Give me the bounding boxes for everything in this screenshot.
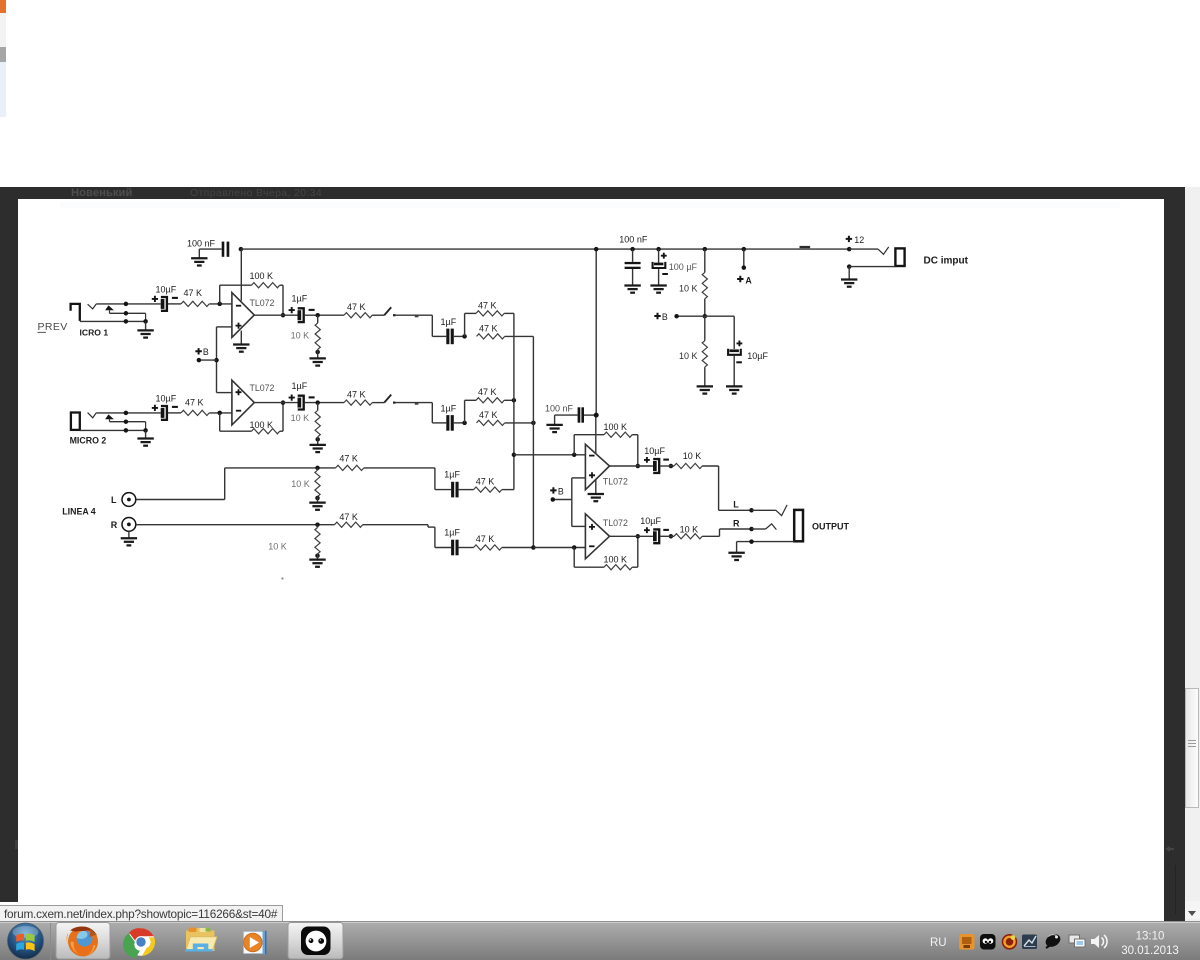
svg-text:1µF: 1µF xyxy=(292,294,308,304)
svg-text:100 K: 100 K xyxy=(604,422,628,432)
label node +B output xyxy=(550,487,556,493)
ground C12 xyxy=(726,386,742,393)
wire C2 to R9 xyxy=(168,412,181,414)
wire U1 feedback up xyxy=(219,285,221,304)
svg-text:12: 12 xyxy=(854,235,864,245)
connector J2 MICRO 2 jack body xyxy=(71,413,80,430)
ground U3 xyxy=(588,494,604,501)
wire C3 to R3 R5 xyxy=(305,314,344,316)
wire bus B right mix xyxy=(532,336,534,547)
switch SW1 ch1 xyxy=(384,307,391,315)
svg-text:A: A xyxy=(745,275,752,285)
wire +B to C12 xyxy=(705,315,734,317)
node C14 out xyxy=(669,534,674,539)
wire R20 to bus B xyxy=(502,547,534,549)
op-amp U3 TL072 xyxy=(585,444,609,489)
ground C9 xyxy=(546,425,562,432)
label node +A xyxy=(737,276,743,282)
node rail 100uF tap xyxy=(656,247,661,252)
svg-text:47 K: 47 K xyxy=(185,397,204,407)
wire bus A to U3 inverting xyxy=(514,454,586,456)
svg-text:47 K: 47 K xyxy=(478,300,497,310)
node bus A ch2 xyxy=(512,398,517,403)
svg-text:47 K: 47 K xyxy=(476,534,495,544)
wire J2 tip contact tick xyxy=(88,413,97,418)
svg-text:10 K: 10 K xyxy=(679,284,698,294)
wire +A stub xyxy=(743,249,745,268)
node C4 out xyxy=(315,400,320,405)
label node +12 xyxy=(846,236,852,242)
wire R8 to bus B xyxy=(505,335,534,337)
wire U3 output to C13 xyxy=(610,465,653,467)
wire ch2 top branch xyxy=(464,400,466,423)
svg-text:10 K: 10 K xyxy=(680,524,699,534)
ground C10 xyxy=(624,286,640,293)
op-amp U1 TL072 xyxy=(232,293,254,338)
svg-text:L: L xyxy=(733,500,739,510)
node L output xyxy=(749,508,754,513)
svg-text:100 nF: 100 nF xyxy=(545,404,574,414)
svg-text:100 nF: 100 nF xyxy=(187,238,216,248)
wire J2 ground stem xyxy=(145,430,147,438)
ground U1 xyxy=(233,345,249,352)
wire C8 to R20 xyxy=(459,547,474,549)
connector J3 RCA L xyxy=(122,493,136,507)
wire V+ power rail xyxy=(241,248,849,250)
svg-text:100 µF: 100 µF xyxy=(669,262,698,272)
wire rail to DC jack tick xyxy=(849,248,878,250)
node U2 output xyxy=(281,400,286,405)
wire +B stub supply xyxy=(677,315,705,317)
wire R13 to bus A xyxy=(504,399,514,401)
svg-text:10µF: 10µF xyxy=(156,284,177,294)
ground R11 xyxy=(310,445,326,452)
node U1 inverting input xyxy=(217,302,222,307)
svg-text:10µF: 10µF xyxy=(747,351,768,361)
wire V+ drop to mixer xyxy=(595,249,597,415)
svg-text:47 K: 47 K xyxy=(347,302,366,312)
wire U3 non-inverting xyxy=(572,477,586,479)
wire R3 ground stem xyxy=(317,349,319,357)
wire J1 sleeve xyxy=(80,320,146,322)
ground R15 xyxy=(309,503,325,510)
wire L to jack tick xyxy=(752,509,776,511)
capacitor C11 100uF rail xyxy=(658,249,660,263)
wire +B stub output xyxy=(553,499,572,501)
node U2 inverting input xyxy=(217,411,222,416)
wire J1 tip to C1 xyxy=(96,303,161,305)
wire R12 to switch SW2 xyxy=(372,402,384,404)
wire SW1 to C5 xyxy=(395,314,433,316)
wire DC jack tip tick xyxy=(878,247,889,254)
wire output jack R tick xyxy=(766,524,777,530)
switch arrow J1 xyxy=(105,305,114,310)
wire U3 V- stem xyxy=(595,480,597,494)
node J2 ring xyxy=(124,419,128,424)
svg-text:1µF: 1µF xyxy=(444,469,460,479)
node C3 out xyxy=(315,313,320,318)
wire R26 to R node xyxy=(702,535,719,537)
node J2 tip xyxy=(124,411,128,416)
svg-text:47 K: 47 K xyxy=(339,512,358,522)
svg-text:TL072: TL072 xyxy=(603,518,628,528)
node ch1 mix xyxy=(462,334,467,339)
node +B dot xyxy=(197,358,202,363)
wire R input run xyxy=(136,524,335,526)
wire J1 tip contact tick xyxy=(88,304,97,309)
wire R to jack tick xyxy=(752,528,766,530)
svg-text:100 nF: 100 nF xyxy=(619,235,648,245)
svg-text:100 K: 100 K xyxy=(250,271,274,281)
svg-text:10 K: 10 K xyxy=(268,542,287,552)
wire feedback to U1 output xyxy=(280,284,283,286)
wire C7 to R19 xyxy=(459,489,474,491)
wire C14 to R26 xyxy=(660,535,674,537)
node +B dot supply xyxy=(674,314,679,319)
label node +B channels xyxy=(195,348,201,354)
node R 10K tap xyxy=(315,522,320,527)
wire ch1 top branch xyxy=(464,313,466,336)
svg-text:DC imput: DC imput xyxy=(924,255,969,266)
node R11 bottom xyxy=(315,437,320,442)
svg-text:10 K: 10 K xyxy=(683,451,702,461)
wire R19 to bus A xyxy=(502,489,514,491)
svg-text:47 K: 47 K xyxy=(476,476,495,486)
wire output jack L tick xyxy=(776,505,787,516)
node J2 sleeve xyxy=(124,428,128,433)
wire top-left cap left lead xyxy=(199,248,221,250)
svg-text:TL072: TL072 xyxy=(250,298,275,308)
node +A rail tap xyxy=(742,247,747,252)
node J1 tip xyxy=(124,302,128,307)
wire sleeve ground stem xyxy=(736,542,738,553)
node R15 bottom xyxy=(315,496,320,501)
capacitor C12 10uF bias xyxy=(737,341,743,347)
wire SW2 to C6 xyxy=(395,402,433,404)
wire R17 to C7 xyxy=(364,467,435,469)
node R16 bottom xyxy=(315,553,320,558)
svg-text:47 K: 47 K xyxy=(479,324,498,334)
switch arrow J2 xyxy=(105,414,114,419)
node J1 ring xyxy=(124,311,128,316)
wire U2 feedback down xyxy=(219,413,221,431)
wire C9 leads xyxy=(584,414,596,416)
svg-text:10 K: 10 K xyxy=(291,330,310,340)
wire R25 to L node xyxy=(702,465,718,467)
node U4 output xyxy=(636,534,641,539)
wire L input run xyxy=(136,499,225,501)
node +A xyxy=(742,265,747,270)
node R3 bottom xyxy=(315,350,320,355)
wire feedback to U3 output xyxy=(632,434,638,436)
svg-text:10 K: 10 K xyxy=(291,413,310,423)
wire J2 ring xyxy=(110,421,146,423)
svg-text:13:10: 13:10 xyxy=(1136,931,1165,943)
switch SW2 ch2 xyxy=(384,395,391,403)
svg-text:47 K: 47 K xyxy=(347,390,366,400)
ground J1 xyxy=(137,330,153,337)
node U1 output xyxy=(281,313,286,318)
wire U4 non-inverting xyxy=(572,525,586,527)
svg-text:B: B xyxy=(662,312,668,322)
svg-text:47 K: 47 K xyxy=(479,410,498,420)
wire R1 to U1 inverting input xyxy=(209,303,232,305)
svg-text:10 K: 10 K xyxy=(679,351,698,361)
node bus B to U4 xyxy=(531,545,536,550)
node rail 100nF tap xyxy=(630,247,635,252)
svg-text:L: L xyxy=(111,495,117,505)
wire J4 ground stem xyxy=(128,531,130,537)
node bus A to U3 xyxy=(512,453,517,458)
svg-text:R: R xyxy=(733,519,740,529)
ground C11 xyxy=(650,286,666,293)
svg-text:47 K: 47 K xyxy=(184,288,203,298)
wire R5 to switch SW1 xyxy=(372,314,384,316)
wire U1 non-inverting input xyxy=(217,326,232,328)
wire J1 ground stem xyxy=(145,321,147,329)
svg-text:LINEA 4: LINEA 4 xyxy=(62,506,96,516)
op-amp U2 TL072 xyxy=(232,380,254,425)
svg-text:RU: RU xyxy=(930,937,947,949)
node U3 feedback tap xyxy=(572,453,577,458)
svg-text:PREV: PREV xyxy=(38,321,68,333)
wire J2 tip to C2 xyxy=(96,412,161,414)
wire U1 output to C3 xyxy=(254,314,297,316)
wire R16 ground stem xyxy=(317,554,319,559)
wire U4 feedback down xyxy=(573,548,575,568)
node U3 output xyxy=(636,464,641,469)
node +12 rail xyxy=(847,247,852,252)
svg-text:10µF: 10µF xyxy=(640,516,661,526)
connector J4 RCA R xyxy=(122,518,136,532)
wire R9 to U2 inverting input xyxy=(209,412,232,414)
ground DC input xyxy=(841,280,857,287)
svg-text:10µF: 10µF xyxy=(156,393,177,403)
wire U2 non-inverting input xyxy=(217,392,232,394)
svg-text:10 K: 10 K xyxy=(291,479,310,489)
wire U2 output to C4 xyxy=(254,402,297,404)
label node +B supply xyxy=(654,313,660,319)
node bus B ch2 xyxy=(531,421,536,426)
wire output jack sleeve xyxy=(737,541,795,543)
svg-text:30.01.2013: 30.01.2013 xyxy=(1121,945,1179,957)
wire C5 to mix node xyxy=(454,335,465,337)
node R output xyxy=(749,527,754,532)
node V+ rail left xyxy=(239,247,244,252)
node stray mark xyxy=(281,577,283,579)
svg-text:1µF: 1µF xyxy=(444,527,460,537)
node C13 out xyxy=(669,464,674,469)
svg-text:47 K: 47 K xyxy=(339,453,358,463)
svg-text:B: B xyxy=(558,487,564,497)
wire feedback to U4 output xyxy=(632,566,638,568)
node rail divider tap xyxy=(703,247,708,252)
svg-text:TL072: TL072 xyxy=(250,383,275,393)
node ch2 mix xyxy=(462,421,467,426)
wire +B bias vertical ch1 xyxy=(216,327,218,393)
wire R11 ground stem xyxy=(317,437,319,445)
connector J6 OUTPUT jack xyxy=(794,510,803,541)
node +B dot output xyxy=(551,497,556,502)
wire R14 to bus B xyxy=(505,422,534,424)
wire C1 to R1 xyxy=(168,303,181,305)
wire C13 to R25 xyxy=(660,465,674,467)
wire DC return xyxy=(849,266,895,268)
svg-text:MICRO 2: MICRO 2 xyxy=(70,436,107,446)
ground J2 xyxy=(137,439,153,446)
wire rail break mark xyxy=(800,246,811,248)
wire C4 out xyxy=(305,402,344,404)
op-amp U4 TL072 xyxy=(585,514,609,559)
ground J4 xyxy=(121,538,137,545)
svg-text:1µF: 1µF xyxy=(292,381,308,391)
wire U1 V- stem xyxy=(240,331,242,344)
svg-text:100 K: 100 K xyxy=(604,554,628,564)
node J2 ground junction xyxy=(143,428,148,433)
wire V+ drop to op-amp U1 xyxy=(240,249,242,301)
wire bus A left mix xyxy=(513,313,515,489)
svg-text:TL072: TL072 xyxy=(603,477,628,487)
wire R15 ground stem xyxy=(317,497,319,502)
svg-text:ICRO 1: ICRO 1 xyxy=(80,327,109,337)
node V+ rail mixer drop xyxy=(594,247,599,252)
connector J1 MICRO 1 jack body xyxy=(71,304,80,321)
ground output jack xyxy=(728,553,744,560)
wire U4 output to C14 xyxy=(610,535,653,537)
svg-text:10µF: 10µF xyxy=(644,446,665,456)
svg-text:100 K: 100 K xyxy=(250,420,274,430)
ground R16 xyxy=(309,560,325,567)
node J1 sleeve xyxy=(124,319,128,324)
node C9 to V+ drop xyxy=(594,413,599,418)
ground top-left xyxy=(191,258,207,265)
node U4 feedback tap xyxy=(572,545,577,550)
wire C6 to mix node xyxy=(454,422,465,424)
wire +B stub xyxy=(199,359,217,361)
svg-text:R: R xyxy=(111,520,118,530)
node +B divider xyxy=(703,314,708,319)
wire R7 to bus A xyxy=(504,312,514,314)
ground R22 xyxy=(697,386,713,393)
wire U3 feedback up xyxy=(573,435,575,455)
node output sleeve xyxy=(749,539,754,544)
wire feedback to U2 output xyxy=(280,430,283,432)
wire +B bias vertical out xyxy=(571,478,573,527)
svg-text:OUTPUT: OUTPUT xyxy=(812,521,850,531)
connector J5 DC input jack xyxy=(895,248,904,266)
node DC return xyxy=(847,264,852,269)
svg-text:47 K: 47 K xyxy=(478,387,497,397)
svg-text:B: B xyxy=(203,347,209,357)
ground R3 xyxy=(310,358,326,365)
wire J1 ring xyxy=(110,312,146,314)
wire bus B to U4 inverting xyxy=(533,547,585,549)
node +B ch tap xyxy=(214,358,219,363)
wire J2 sleeve xyxy=(80,429,146,431)
svg-text:1µF: 1µF xyxy=(441,403,457,413)
svg-text:1µF: 1µF xyxy=(441,317,457,327)
node L 10K tap xyxy=(315,466,320,471)
node J1 ground junction xyxy=(143,319,148,324)
